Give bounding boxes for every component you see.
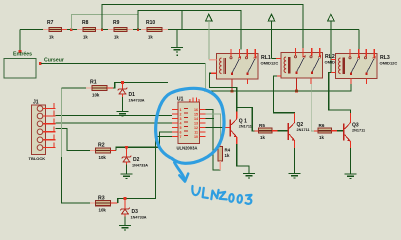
svg-text:R2: R2 [98, 143, 105, 149]
svg-text:D1: D1 [129, 92, 136, 98]
transistor Q3 [343, 123, 365, 142]
svg-text:R7: R7 [47, 20, 54, 26]
J1 pin 1 [37, 103, 55, 111]
svg-text:Curseur: Curseur [44, 58, 64, 64]
blue freehand circle around U1 [156, 88, 224, 163]
wire R1 right to D1 node [107, 87, 113, 89]
svg-text:OMID12C: OMID12C [380, 61, 398, 66]
diode D3 zener [120, 199, 147, 226]
svg-text:10k: 10k [99, 208, 107, 213]
svg-text:1N4733A: 1N4733A [129, 99, 145, 103]
relay RL1 top pins [231, 49, 255, 58]
relay RL2 [276, 48, 342, 93]
svg-text:TBLOCK: TBLOCK [29, 156, 46, 161]
J1 pin 5 [37, 135, 55, 143]
wire RL2 pin drop to R6 [311, 84, 314, 131]
resistor R2 [90, 143, 111, 161]
svg-text:6: 6 [180, 131, 182, 135]
power arrow A3 [328, 14, 336, 72]
wire curseur drop to commons rail [205, 64, 207, 92]
connector J1 [29, 100, 46, 162]
wire rail A relay commons [204, 90, 351, 92]
ground under Q1 [243, 174, 255, 178]
relay RL1 bottom pins [247, 79, 249, 84]
svg-text:OMID12C: OMID12C [261, 61, 279, 66]
ground under Q2 [289, 174, 301, 178]
svg-text:5: 5 [180, 126, 182, 130]
blue handwritten text: 3 [246, 195, 252, 204]
wire stub vertical at 182 [181, 11, 183, 30]
wire U1 pin15 to R4 top [206, 114, 221, 142]
svg-text:7: 7 [180, 135, 182, 139]
svg-text:Entrées: Entrées [13, 52, 32, 58]
wire RL1 coil to Q1 collector [210, 73, 237, 111]
resistor R1 [90, 80, 107, 98]
svg-text:2N1711: 2N1711 [239, 125, 252, 129]
diode D2 zener [122, 148, 149, 174]
resistor R7 [43, 20, 67, 39]
junction node RL2 common on rail A [295, 90, 298, 93]
svg-text:2N1711: 2N1711 [297, 128, 310, 132]
J1 pin 6 [37, 142, 55, 150]
diode D1 zener [118, 83, 145, 112]
svg-text:8: 8 [189, 99, 191, 103]
junction node R8-R9 [101, 28, 103, 30]
wire R3 net to U1 pin7 [125, 137, 172, 199]
relay RL1 left coil pins [211, 59, 217, 61]
relay RL3 bottom pins [366, 79, 368, 85]
wire R2 right to D2 node [111, 150, 117, 152]
resistor R9 [108, 20, 133, 39]
svg-text:2N1711: 2N1711 [352, 129, 365, 133]
svg-text:R4: R4 [225, 148, 231, 153]
wire left drop to R3 [62, 157, 91, 203]
wire U1 pin12 to Q1 base [206, 127, 224, 129]
relay RL3 [331, 49, 397, 92]
svg-text:15: 15 [194, 113, 198, 117]
wire Q2 emitter to ground [294, 141, 296, 149]
J1 pin 4 [37, 127, 55, 135]
wire R3 right to D3 node [111, 202, 118, 204]
wire Q3 emitter to ground [350, 141, 352, 148]
junction node RL1 common on rail A [231, 90, 234, 93]
svg-text:4: 4 [180, 122, 182, 126]
wire RL3 common to rail A [350, 84, 352, 92]
relay RL2 bottom pins [310, 78, 312, 84]
J1 pin 3 [37, 119, 55, 127]
svg-text:R10: R10 [146, 20, 155, 26]
svg-text:1: 1 [180, 108, 182, 112]
op-amp driver U1 ULN2003A body [177, 97, 200, 151]
node Entrees origin dot [19, 50, 22, 53]
blue handwritten text: 0 [238, 195, 242, 203]
terminal box below Entrees [4, 59, 36, 79]
svg-text:13: 13 [194, 122, 198, 126]
svg-text:R5: R5 [259, 123, 265, 128]
svg-text:1k: 1k [260, 135, 265, 140]
svg-text:1k: 1k [49, 34, 54, 39]
ground under D1 [117, 112, 129, 116]
ground under Q3 [345, 174, 357, 178]
wire RL1 common to rail A [231, 79, 233, 91]
svg-text:R3: R3 [98, 196, 105, 202]
svg-text:D2: D2 [133, 157, 140, 163]
wire branch to RL1 top [138, 11, 241, 50]
svg-text:U1: U1 [177, 97, 184, 103]
svg-text:1k: 1k [83, 34, 88, 39]
power arrow A1 [206, 14, 217, 60]
wire bypass light (junction A up over to junction C) [71, 14, 137, 29]
junction node D3 [124, 197, 127, 200]
junction node R9-R10 [137, 28, 139, 30]
svg-text:14: 14 [194, 117, 198, 121]
resistor R8 [77, 20, 101, 39]
U1 left pin numbers [180, 108, 182, 139]
junction node D2 [125, 146, 128, 149]
svg-text:1k: 1k [225, 153, 230, 158]
resistor R5 [259, 123, 273, 140]
U1 internal driver marks [184, 109, 188, 136]
wire to R1 left [62, 87, 87, 89]
J1 pin 2 [37, 111, 55, 119]
wire main rail drop to RL3 top [358, 30, 360, 50]
transistor Q2 [287, 122, 309, 141]
relay RL2 left coil pins [276, 58, 281, 60]
wire curseur horizontal [41, 63, 206, 65]
U1 right pins 16-10 [200, 110, 206, 137]
blue handwritten text ULN2003: U [192, 186, 200, 195]
wire J1 pin4 to R2 [56, 129, 91, 151]
blue handwritten text: N [211, 190, 218, 199]
svg-text:R9: R9 [113, 20, 120, 26]
svg-text:1k: 1k [114, 34, 119, 39]
node Curseur dot [39, 62, 42, 65]
svg-text:10k: 10k [92, 93, 100, 98]
svg-text:1N4733A: 1N4733A [132, 164, 148, 168]
blue handwritten text: L [203, 188, 208, 198]
junction node R7-R8 [70, 28, 72, 30]
U1 top pins 8-9 [192, 98, 194, 103]
relay RL2 top pins [296, 48, 320, 57]
transistor Q1 [229, 119, 252, 138]
blue handwritten text: 0 [229, 194, 233, 202]
junction node D1 [121, 81, 124, 84]
svg-text:1k: 1k [148, 34, 153, 39]
wire U1 pin14 right stub [206, 118, 215, 120]
resistor R3 [90, 196, 111, 213]
wire branch to RL2 top [102, 5, 303, 49]
wire main top rail [20, 29, 359, 31]
svg-text:1k: 1k [319, 135, 324, 140]
svg-text:R1: R1 [90, 80, 97, 86]
svg-text:16: 16 [194, 108, 198, 112]
wire Q3 collector to RL3 coil [329, 73, 351, 115]
blue arrow stem [175, 163, 185, 181]
svg-text:9: 9 [198, 99, 200, 103]
blue arrow head [179, 174, 188, 182]
relay RL1 [211, 49, 278, 92]
svg-text:3: 3 [180, 117, 182, 121]
U1 left pins 1-7 [172, 110, 178, 137]
wire RL2 common to rail A [296, 78, 298, 91]
wire entree drop [19, 30, 21, 52]
relay RL3 top pins [350, 49, 374, 58]
svg-text:2: 2 [180, 113, 182, 117]
wire rail A drop to Q2 collector [274, 76, 295, 114]
wire Q1 collector node to R5 [237, 108, 255, 132]
ground under D2 [121, 174, 133, 178]
wire R1 left drop (J1 column, upper faint) [61, 88, 63, 157]
blue handwritten text: 2 [220, 192, 227, 200]
svg-text:11: 11 [194, 131, 198, 135]
relay RL3 left coil pins [331, 59, 336, 61]
wire U1 pin16 to R4 bottom [206, 110, 221, 171]
wire J1 pin2 to U1 pin2 [56, 115, 173, 117]
resistor R6 [318, 123, 332, 140]
svg-text:D3: D3 [132, 209, 139, 215]
svg-text:R6: R6 [319, 123, 325, 128]
svg-text:R8: R8 [82, 20, 89, 26]
wire R2 net to U1 pin6 [127, 132, 173, 147]
U1 right pin numbers [194, 108, 198, 139]
wire Q1 emitter to ground [236, 137, 238, 144]
svg-text:10k: 10k [99, 155, 107, 160]
wire R5 to Q2 base [272, 130, 278, 132]
svg-text:ULN2003A: ULN2003A [177, 146, 198, 151]
svg-text:10: 10 [194, 135, 198, 139]
svg-text:1N4733A: 1N4733A [131, 216, 147, 220]
resistor R4 [218, 147, 231, 171]
ground G1 reference dot [176, 55, 178, 57]
ground under D3 [119, 226, 131, 230]
svg-text:12: 12 [194, 126, 198, 130]
resistor R10 [141, 20, 168, 39]
ground G1 (top rail) [171, 30, 183, 52]
power arrow A2 [268, 14, 281, 58]
wire J1 pin3 to U1 pin4 [56, 122, 173, 124]
wire R6 to Q3 base [332, 130, 338, 132]
